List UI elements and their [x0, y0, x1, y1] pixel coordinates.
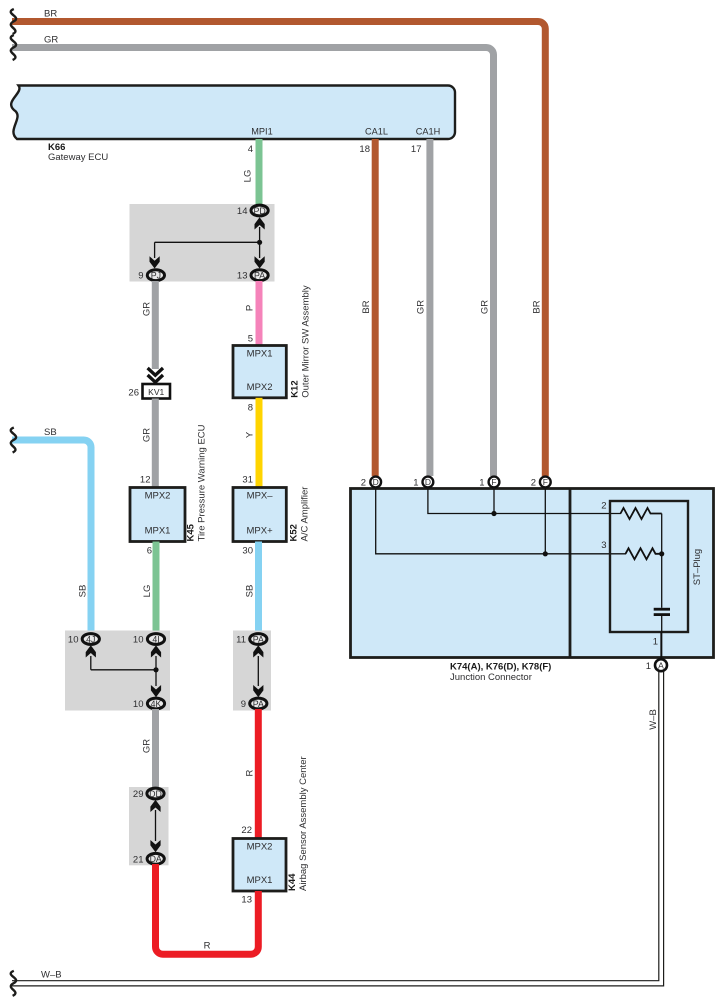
- svg-text:DD: DD: [149, 789, 162, 799]
- svg-text:13: 13: [237, 271, 248, 282]
- svg-text:MPX1: MPX1: [247, 349, 273, 360]
- wire down from resistor 2: [661, 514, 663, 608]
- svg-text:8: 8: [248, 403, 253, 414]
- svg-text:CA1L: CA1L: [365, 127, 388, 137]
- junction connector K74 box: [351, 489, 714, 658]
- arrow up into 4I: [151, 645, 161, 657]
- svg-text:4I: 4I: [152, 634, 159, 644]
- svg-text:26: 26: [128, 388, 139, 399]
- ECU K52 A/C Amplifier box: [233, 488, 286, 542]
- connector circle F (1): [489, 477, 500, 488]
- wire from ST-plug pin1 to A: [660, 632, 662, 659]
- connector 4I: [147, 634, 164, 645]
- svg-text:PJ: PJ: [151, 271, 161, 281]
- wire to PJ with arrow down: [154, 242, 156, 258]
- svg-text:BR: BR: [361, 300, 372, 313]
- arrow up into 4J: [86, 645, 96, 657]
- svg-text:A/C Amplifier: A/C Amplifier: [300, 487, 311, 542]
- wire (horizontal link): [155, 241, 260, 243]
- wire (horizontal link): [91, 669, 156, 671]
- connector PD: [251, 205, 268, 216]
- wire GR from PJ down to chevrons: [152, 281, 159, 369]
- svg-text:LG: LG: [243, 170, 254, 183]
- internal wire from F2: [544, 489, 546, 554]
- svg-text:17: 17: [411, 144, 422, 155]
- svg-text:9: 9: [138, 271, 143, 282]
- svg-text:BR: BR: [44, 9, 57, 20]
- svg-text:K45: K45: [186, 523, 197, 541]
- svg-text:1: 1: [413, 478, 418, 489]
- ST-Plug inner box: [610, 501, 688, 632]
- double chevron: [148, 368, 163, 375]
- torn-end mark GR: [11, 35, 16, 60]
- svg-text:PA: PA: [253, 634, 264, 644]
- connector shade box (DD/DA): [129, 787, 169, 865]
- torn-end mark SB: [11, 428, 16, 453]
- svg-text:MPX1: MPX1: [247, 875, 273, 886]
- svg-text:D: D: [425, 477, 431, 487]
- wire GR (horizontal, turns down to F1): [12, 48, 494, 477]
- svg-text:K44: K44: [287, 873, 298, 891]
- svg-text:ST–Plug: ST–Plug: [692, 549, 703, 585]
- junction node: [491, 511, 496, 516]
- torn-end mark BR: [11, 9, 16, 34]
- svg-text:W–B: W–B: [41, 970, 62, 981]
- connector PA (9): [250, 698, 267, 709]
- ECU K44 Airbag Sensor Assembly Center box: [233, 839, 286, 892]
- svg-text:MPX2: MPX2: [247, 382, 273, 393]
- svg-text:MPX–: MPX–: [247, 491, 274, 502]
- svg-text:2: 2: [601, 501, 606, 512]
- svg-text:A: A: [658, 660, 664, 670]
- svg-text:1: 1: [646, 661, 651, 672]
- svg-text:5: 5: [248, 334, 253, 345]
- connector 4K: [147, 698, 164, 709]
- divider: [569, 489, 572, 658]
- wire to 4K with arrow down: [155, 670, 157, 686]
- svg-text:K74(A), K76(D), K78(F): K74(A), K76(D), K78(F): [450, 662, 551, 673]
- svg-text:Airbag Sensor Assembly Center: Airbag Sensor Assembly Center: [298, 756, 309, 891]
- svg-text:PD: PD: [253, 206, 265, 216]
- svg-text:3: 3: [601, 540, 606, 551]
- svg-text:K52: K52: [289, 524, 300, 541]
- svg-text:18: 18: [359, 144, 370, 155]
- ECU K66 Gateway ECU box: [11, 86, 455, 140]
- arrow up into DD: [150, 800, 160, 812]
- svg-text:GR: GR: [142, 739, 153, 753]
- junction node: [543, 551, 548, 556]
- svg-text:Y: Y: [245, 431, 256, 438]
- connector DD: [147, 788, 164, 799]
- svg-text:Gateway ECU: Gateway ECU: [48, 152, 108, 163]
- svg-text:F: F: [491, 477, 496, 487]
- connector circle F (2): [540, 477, 551, 488]
- connector KV1: [143, 384, 171, 399]
- svg-text:SB: SB: [245, 585, 256, 598]
- svg-text:22: 22: [241, 825, 252, 836]
- svg-text:Outer Mirror SW Assembly: Outer Mirror SW Assembly: [301, 285, 312, 398]
- svg-text:F: F: [543, 477, 548, 487]
- svg-text:SB: SB: [78, 585, 89, 598]
- svg-text:P: P: [245, 305, 256, 311]
- internal wire from D1 to resistor 2: [428, 489, 621, 514]
- svg-text:4J: 4J: [86, 634, 95, 644]
- connector shade box (PA/PA): [233, 631, 271, 711]
- svg-text:MPX2: MPX2: [145, 491, 171, 502]
- svg-text:MPI1: MPI1: [251, 127, 272, 137]
- svg-text:PA: PA: [254, 271, 265, 281]
- junction node: [659, 551, 664, 556]
- svg-text:GR: GR: [44, 35, 58, 46]
- junction node: [153, 667, 158, 672]
- svg-text:29: 29: [133, 789, 144, 800]
- wire LG from MPI1 to PD: [256, 139, 263, 204]
- arrow up into PA11: [253, 645, 263, 657]
- connector 4J: [82, 634, 99, 645]
- torn-end mark W-B: [11, 971, 16, 996]
- svg-text:12: 12: [140, 475, 151, 486]
- wire BR (horizontal top, turns down to F2): [12, 22, 545, 477]
- arrow up into PD: [255, 217, 265, 229]
- wire to PA with arrow down: [259, 242, 261, 258]
- SW K12 Outer Mirror SW Assembly box: [233, 346, 286, 398]
- connector circle A: [655, 659, 667, 671]
- svg-text:KV1: KV1: [148, 387, 164, 397]
- resistor (row 2): [621, 508, 662, 519]
- svg-text:30: 30: [242, 546, 253, 557]
- wire P from PA to K12: [256, 281, 263, 346]
- junction node: [257, 240, 262, 245]
- capacitor C: [654, 608, 670, 611]
- svg-text:10: 10: [133, 635, 144, 646]
- wire Y from K12 to K52: [256, 398, 263, 488]
- svg-text:SB: SB: [44, 427, 57, 438]
- svg-text:4: 4: [248, 144, 253, 155]
- svg-text:14: 14: [237, 206, 248, 217]
- wire GR from KV1 to K45: [152, 399, 159, 488]
- svg-text:Junction Connector: Junction Connector: [450, 672, 532, 683]
- connector PJ: [147, 270, 164, 281]
- svg-text:GR: GR: [416, 300, 427, 314]
- wire GR from CA1H to D1: [426, 139, 433, 476]
- wire BR from CA1L to D2: [372, 139, 379, 476]
- ECU K45 Tire Pressure Warning ECU box: [130, 488, 185, 542]
- svg-text:11: 11: [236, 635, 246, 646]
- svg-text:K12: K12: [290, 380, 301, 397]
- svg-text:CA1H: CA1H: [416, 127, 441, 137]
- connector circle D (2): [370, 477, 381, 488]
- svg-text:2: 2: [361, 478, 366, 489]
- svg-text:GR: GR: [142, 428, 153, 442]
- svg-text:BR: BR: [532, 300, 543, 313]
- svg-text:6: 6: [147, 546, 152, 557]
- svg-text:1: 1: [479, 478, 484, 489]
- wire W-B (double line from A down and left to torn end): [12, 672, 659, 981]
- wire below capacitor to box edge: [661, 616, 663, 658]
- svg-text:10: 10: [133, 699, 144, 710]
- svg-text:31: 31: [242, 475, 253, 486]
- connector shade box (PD/PJ/PA): [130, 204, 275, 282]
- svg-text:2: 2: [531, 478, 536, 489]
- connector PA: [251, 270, 268, 281]
- connector circle D (1): [423, 477, 434, 488]
- svg-text:MPX1: MPX1: [145, 526, 171, 537]
- svg-text:R: R: [204, 941, 211, 952]
- svg-text:LG: LG: [142, 585, 153, 598]
- wire LG from K45 to 4I: [153, 542, 160, 633]
- svg-text:1: 1: [653, 637, 658, 648]
- svg-text:4K: 4K: [151, 699, 162, 709]
- wire R from DA down, right, up to K44 pin13: [156, 864, 259, 954]
- svg-text:13: 13: [241, 895, 252, 906]
- svg-text:DA: DA: [150, 854, 162, 864]
- svg-text:9: 9: [241, 699, 246, 710]
- wire GR from 4K to DD: [152, 709, 159, 787]
- svg-text:Tire Pressure Warning ECU: Tire Pressure Warning ECU: [197, 424, 208, 541]
- internal wire from D2 to resistor 3: [376, 489, 626, 554]
- svg-text:MPX+: MPX+: [247, 526, 274, 537]
- wire SB from K52 to PA: [255, 542, 262, 633]
- svg-text:10: 10: [68, 635, 79, 646]
- connector shade box (4J/4I/4K): [65, 631, 170, 711]
- svg-text:GR: GR: [142, 302, 153, 316]
- resistor (row 3): [626, 548, 662, 559]
- svg-text:MPX2: MPX2: [247, 842, 273, 853]
- wire R from PA9 to K44 pin22: [255, 709, 262, 839]
- svg-text:W–B: W–B: [648, 709, 659, 730]
- svg-text:PA: PA: [253, 699, 264, 709]
- svg-text:R: R: [245, 769, 256, 776]
- svg-text:21: 21: [133, 854, 144, 865]
- svg-text:GR: GR: [480, 300, 491, 314]
- wire SB (left, torn end, down to 4J): [12, 440, 91, 632]
- internal wire from F1: [493, 489, 495, 514]
- svg-text:D: D: [373, 477, 379, 487]
- connector DA: [147, 853, 164, 864]
- connector PA (11): [250, 634, 267, 645]
